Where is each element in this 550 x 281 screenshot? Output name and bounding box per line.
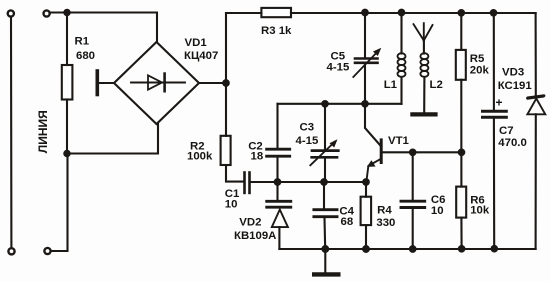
capacitor C3 plate bottom [312, 156, 337, 159]
terminal top-right of pair [44, 10, 50, 16]
capacitor C4 plate bottom [314, 215, 337, 218]
transistor VT1 collector wire [383, 151, 462, 153]
wire C5 bottom [364, 64, 366, 104]
svg-text:КС191: КС191 [498, 80, 533, 92]
varicap VD2 cap bar bottom [267, 206, 291, 209]
wire mid bus y182 [278, 181, 367, 183]
svg-text:10: 10 [431, 205, 444, 217]
capacitor C5 arrow [353, 51, 378, 78]
node junction emitter R4 [363, 179, 369, 185]
svg-text:4-15: 4-15 [327, 61, 350, 73]
capacitor C5 arrowhead [373, 48, 381, 56]
wire bridge bottom to R1 node [67, 124, 158, 154]
inductor L1 [398, 53, 406, 77]
transistor VT1 base bar [380, 140, 383, 163]
wire top bus right part [291, 12, 536, 14]
wire bottom bus [279, 248, 535, 250]
svg-text:VD3: VD3 [502, 66, 524, 78]
wire C4 bottom [323, 218, 326, 249]
node junction C5 top [362, 10, 368, 16]
wire top bus left part [226, 12, 261, 14]
capacitor C6 plate top [401, 200, 425, 203]
wire C1 to VD2 node [251, 181, 278, 183]
node junction C7 top [491, 10, 497, 16]
svg-text:R5: R5 [470, 53, 485, 65]
wire R2 bottom to C1 [226, 165, 243, 182]
svg-text:R3 1k: R3 1k [261, 25, 292, 37]
wire R6 bottom [460, 218, 462, 249]
capacitor C2 plate bottom [267, 155, 290, 158]
transistor VT1 emitter arrowhead [367, 160, 376, 167]
capacitor C4 plate top [314, 208, 337, 211]
capacitor C1 plate left [243, 173, 246, 193]
svg-text:ЛИНИЯ: ЛИНИЯ [36, 110, 50, 153]
wire R2 down [225, 83, 227, 136]
svg-text:330: 330 [376, 217, 395, 229]
wire C5 top [364, 13, 366, 58]
wire VD2 bottom [278, 227, 280, 249]
node junction C4 top [321, 179, 327, 185]
wire C6 bottom [412, 209, 414, 249]
svg-text:R1: R1 [75, 36, 90, 48]
svg-text:10k: 10k [470, 205, 490, 217]
node junction R4 bottom [363, 246, 369, 252]
capacitor C3 arrowhead [330, 139, 338, 147]
node junction top at R1 [64, 10, 69, 15]
terminal bottom-right of pair [44, 248, 50, 254]
svg-text:КВ109А: КВ109А [234, 230, 276, 242]
svg-text:VD2: VD2 [239, 217, 261, 229]
node junction C6 bottom [410, 246, 416, 252]
node junction L1 top [399, 10, 405, 16]
node junction ground [322, 246, 328, 252]
svg-text:VD1: VD1 [185, 37, 208, 49]
node junction R5 top [459, 10, 465, 16]
svg-text:КЦ407: КЦ407 [184, 50, 218, 62]
wire R1 top [66, 13, 68, 66]
node junction C7 bottom [492, 246, 498, 252]
svg-text:L2: L2 [430, 79, 443, 91]
wire top left segment [50, 13, 157, 43]
svg-text:68: 68 [341, 216, 354, 228]
svg-text:VT1: VT1 [388, 135, 410, 147]
diode bridge VD1 diamond [114, 42, 199, 124]
svg-text:100k: 100k [187, 151, 213, 163]
node junction collector R5 R6 [459, 150, 465, 156]
resistor R5 [456, 50, 466, 80]
varicap VD2 triangle [272, 210, 288, 228]
wire mid bus y104 [278, 103, 402, 105]
capacitor C5 plate top [355, 57, 378, 60]
svg-text:+: + [496, 96, 503, 110]
varicap VD2 cap bar top [267, 200, 291, 203]
wire C7 bottom [493, 118, 495, 248]
capacitor C3 arrow [310, 142, 335, 166]
zener VD3 column top wire [535, 13, 537, 95]
wire C2 bottom [276, 158, 278, 201]
wire R5 top [460, 13, 462, 50]
wire L2 bottom [423, 77, 425, 113]
wire VD3 bottom [535, 114, 537, 249]
capacitor C2 plate top [267, 148, 290, 151]
VD1 AC stub bar [96, 71, 100, 95]
wire ground drop [324, 249, 326, 273]
node junction R1 bottom [64, 151, 69, 156]
zener VD3 triangle [527, 99, 545, 115]
ground bar antenna [412, 112, 435, 116]
terminal bottom-left [8, 248, 14, 254]
VD1 AC stub [99, 82, 115, 84]
transistor VT1 emitter [366, 159, 381, 182]
svg-text:680: 680 [76, 50, 95, 62]
resistor R2 [221, 136, 231, 165]
wire antenna to L2 [423, 41, 425, 54]
node junction C3 top [322, 101, 328, 107]
svg-text:470.0: 470.0 [498, 137, 527, 149]
wire L1 top [400, 13, 402, 54]
wire C3 bottom [324, 159, 326, 182]
wire R1 bottom [66, 100, 68, 154]
capacitor C7 plate top [483, 110, 507, 113]
svg-text:18: 18 [251, 150, 264, 162]
zener VD3 cathode bar [527, 95, 545, 99]
svg-text:C3: C3 [300, 122, 315, 134]
resistor R4 [361, 197, 372, 225]
svg-text:L1: L1 [384, 79, 398, 91]
wire R4 bottom [365, 225, 367, 249]
svg-text:20k: 20k [470, 64, 490, 76]
wire C4 top [323, 182, 325, 208]
resistor R6 [456, 187, 466, 218]
wire C6 top [412, 152, 414, 200]
capacitor C3 plate top [312, 149, 338, 152]
wire C3 top [324, 104, 326, 149]
wire L1 bottom [400, 77, 402, 104]
VD1 inner diode cathode bar [163, 74, 166, 92]
wire left column [10, 17, 12, 247]
wire VT1 base feed [365, 104, 380, 146]
svg-text:C7: C7 [499, 125, 514, 137]
ground [314, 272, 338, 276]
VD1 inner diode line [131, 82, 185, 84]
svg-text:4-15: 4-15 [296, 135, 319, 147]
capacitor C5 plate bottom [355, 61, 378, 64]
wire R4 top [365, 182, 367, 197]
antenna [414, 23, 433, 40]
terminal top-left [8, 10, 14, 16]
resistor R3 [261, 8, 291, 17]
wire bottom terminal stub [51, 154, 68, 252]
capacitor C7 plate bottom [483, 116, 507, 119]
node junction collector C6 [410, 150, 416, 156]
svg-text:R4: R4 [377, 204, 392, 216]
wire R5 bottom [460, 80, 462, 187]
capacitor C6 plate bottom [401, 206, 425, 209]
wire bridge right to R2 column [199, 82, 226, 84]
VD1 inner diode triangle [148, 75, 162, 89]
capacitor C1 plate right [248, 173, 251, 193]
node junction bridge output [223, 80, 229, 86]
inductor L2 [420, 53, 428, 77]
node junction C2 VD2 C1 [275, 179, 281, 185]
wire C2 column top [276, 104, 278, 148]
wire C7 top [493, 13, 495, 110]
wire R2 column up [225, 13, 227, 83]
node junction base feed [362, 101, 368, 107]
node junction R6 bottom [459, 246, 465, 252]
resistor R1 [62, 65, 73, 100]
svg-text:10: 10 [225, 198, 238, 210]
